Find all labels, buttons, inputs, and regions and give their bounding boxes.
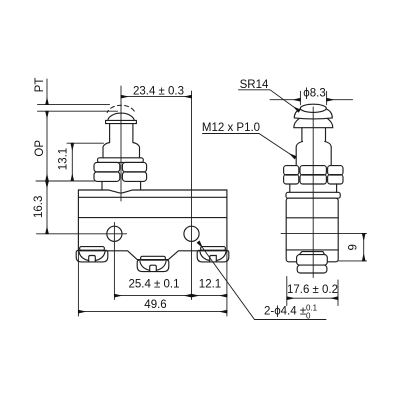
right plunger bell collar [294,114,333,127]
hole leader line [198,242,326,320]
svg-text:12.1: 12.1 [199,279,221,291]
17.6 dimension line [287,297,338,299]
nut band 1 right [122,162,146,172]
9 dim lower extension line [339,260,367,262]
terminal screw left [76,247,108,262]
bottom extension line body left [77,252,79,316]
nut band 2 left [94,172,120,182]
svg-text:9: 9 [348,244,360,250]
right nut row1 facet1 [284,166,299,175]
left view centerline [120,86,122,201]
svg-text:OP: OP [34,140,46,157]
body seam line 1 [78,196,227,198]
plunger dome brim [106,120,137,123]
svg-text:23.4 ± 0.3: 23.4 ± 0.3 [133,85,184,97]
left hole vertical extension line [113,223,115,300]
svg-text:49.6: 49.6 [144,299,166,311]
right plunger cap top ellipse [300,104,326,112]
svg-text:2-ϕ4.4 ±: 2-ϕ4.4 ± [264,306,306,318]
right washer [286,192,340,198]
right bushing neck [289,184,291,192]
operating position line [38,110,118,112]
right nut row2 facet1 [284,175,299,184]
right terminal band1 [297,255,328,266]
svg-text:ϕ8.3: ϕ8.3 [303,87,325,99]
bushing neck [101,181,103,189]
right body seam [286,217,338,219]
svg-text:0: 0 [306,312,311,321]
nut band 2 right [122,172,146,182]
bottom extension line body right [226,251,228,316]
16.3 dimension line [46,181,48,234]
mounting surface line [36,180,95,182]
right hole vertical extension line [191,91,193,300]
body seam line 2 [78,217,227,219]
23.4 dimension line [121,96,192,98]
right terminal plate [299,252,324,255]
phi8.3 arrow right [327,99,353,101]
right body parting line [281,232,367,234]
right nut row1 facet2 [300,166,326,175]
svg-text:16.3: 16.3 [33,196,45,218]
plunger flare to bushing [103,143,110,158]
terminal screw middle [137,256,169,271]
right body bottom step line [286,249,338,251]
svg-text:17.6 ± 0.2: 17.6 ± 0.2 [287,284,338,296]
13.1 step tick line [67,142,104,144]
right nut row2 facet2 [300,175,326,184]
49.6 dimension line [78,311,227,313]
SR14 leader [239,90,300,111]
25.4 dimension line [114,295,191,297]
right mounting hole [184,226,199,241]
right body [286,198,338,262]
right plunger cap bulb [294,106,332,119]
phi8.3 extension lines [299,91,301,105]
svg-text:PT: PT [34,78,46,93]
13.1 dimension line [71,143,73,181]
right plunger flare [296,142,302,166]
right terminal band2 [297,265,327,273]
M12 leader [203,134,296,158]
free position line [38,104,110,106]
svg-text:M12 x P1.0: M12 x P1.0 [202,122,260,134]
17.6 extension lines [286,277,288,306]
plunger shaft [109,124,111,143]
nut band 1 left [94,162,120,172]
PT arrow [46,79,48,105]
switch body outline [78,190,227,260]
OP dimension line [46,111,48,181]
right view centerline [312,107,314,278]
plunger dome (operating position) [108,113,135,120]
left mounting hole [107,226,122,241]
right nut row1 facet3 [328,166,343,175]
terminal screw right [197,247,229,262]
plunger free-position dashed dome [107,105,135,112]
bushing washer [98,158,144,163]
svg-text:25.4 ± 0.1: 25.4 ± 0.1 [128,279,179,291]
svg-text:13.1: 13.1 [58,148,70,170]
left hole horizontal centerline [37,233,127,235]
9 dimension line [363,233,365,261]
svg-text:SR14: SR14 [240,79,269,91]
right nut row2 facet3 [328,175,343,184]
phi8.3 arrow left [270,99,300,101]
right plunger shaft [301,128,303,142]
12.1 dimension line [192,295,227,297]
